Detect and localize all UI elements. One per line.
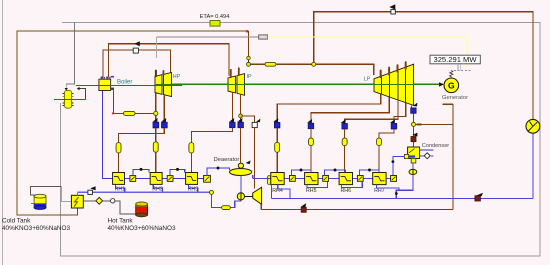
valve pill RH3 feed bbox=[189, 143, 194, 153]
svg-text:325.291 MW: 325.291 MW bbox=[433, 55, 477, 64]
svg-text:Generator: Generator bbox=[442, 95, 468, 101]
arrow on hot reheat bbox=[134, 41, 140, 46]
turbine LP (4 stages) bbox=[374, 64, 414, 105]
boiler right connector ticks bbox=[111, 76, 114, 78]
condensate main line bbox=[272, 133, 534, 199]
LP extraction A -> RH4 bbox=[277, 94, 381, 122]
valve pill RH6 feed bbox=[342, 138, 347, 146]
svg-text:RH3: RH3 bbox=[188, 186, 199, 192]
valve pill RH7 feed bbox=[377, 138, 382, 146]
drain header bbox=[261, 204, 453, 209]
converter box bbox=[259, 35, 268, 39]
hot tank bbox=[136, 202, 148, 217]
svg-text:G: G bbox=[448, 80, 455, 90]
arrow at IP valve 1 bbox=[229, 118, 234, 122]
wire: into RH5 top bbox=[310, 146, 312, 173]
pump sq1 bbox=[130, 176, 136, 182]
sensor gray line to HP inlet bbox=[155, 37, 157, 58]
pump shaft bbox=[245, 195, 253, 197]
deaerator D1 bbox=[230, 169, 252, 176]
RH6 extraction valve (blue) bbox=[342, 124, 348, 130]
wire: IP->LP crossover bbox=[249, 64, 374, 75]
riser sq1->RH2 bbox=[133, 169, 149, 175]
wire: into RH7 top bbox=[378, 146, 380, 173]
RH5 extraction valve (blue) bbox=[308, 123, 314, 129]
drains row2 bbox=[278, 185, 290, 199]
heater top connection to feed line bbox=[77, 192, 79, 195]
LP exhaust to condenser bbox=[411, 105, 413, 108]
generator G1 bbox=[444, 78, 459, 93]
node on crossover (IP side) bbox=[247, 62, 251, 66]
wire: down to FW pump turbine bbox=[254, 128, 256, 189]
cold tank left port tick bbox=[31, 202, 34, 204]
arrow on HX-boiler sensor bbox=[77, 87, 80, 90]
sensor gray line to converter bbox=[156, 36, 258, 38]
wire to hot tank bbox=[115, 201, 136, 214]
HP stage2 stub bbox=[162, 71, 164, 75]
RH7 extraction valve (blue) bbox=[391, 124, 397, 130]
heater RH4 bbox=[271, 173, 284, 195]
valve pill RH2 feed bbox=[153, 142, 158, 152]
arrow at HP valve 1 bbox=[153, 118, 158, 122]
condenser bbox=[408, 147, 420, 159]
heater RH3 bbox=[186, 173, 199, 193]
main feed return purple line bbox=[78, 191, 212, 193]
svg-text:RH6: RH6 bbox=[340, 188, 351, 194]
heater RH6 bbox=[339, 173, 352, 195]
wire: boiler drain to HP leg bbox=[111, 89, 156, 113]
svg-text:Condenser: Condenser bbox=[422, 143, 450, 149]
valve before RH4 bbox=[268, 176, 271, 179]
wire: sensor from frame to HX top bbox=[66, 23, 74, 89]
svg-text:Boiler: Boiler bbox=[117, 80, 132, 86]
pump sq7 bbox=[391, 176, 397, 182]
wire: IP ext to deaerator bbox=[240, 128, 242, 164]
node on crossover (LP side) bbox=[312, 62, 316, 66]
electric heater E1 bbox=[71, 195, 83, 208]
shaft overlay through turbines bbox=[155, 83, 440, 85]
valve pill RH1 feed bbox=[116, 143, 121, 153]
turbine IP bbox=[228, 74, 245, 96]
boiler downcomer bbox=[103, 91, 113, 179]
pump sq2 bbox=[167, 176, 173, 182]
wire: into RH4 top bbox=[276, 152, 278, 172]
boundary element (dark red) above condenser bbox=[411, 137, 416, 142]
sensor hook HX->boiler bbox=[80, 89, 86, 100]
FW pump P1 bbox=[237, 193, 244, 200]
turbine HP bbox=[155, 72, 172, 96]
RH4 extraction valve (blue) bbox=[274, 122, 280, 128]
svg-text:RH1: RH1 bbox=[115, 186, 126, 192]
wire: HP stage2 drop bbox=[163, 96, 165, 123]
arrow at IP valve 2 bbox=[237, 118, 242, 122]
heater RH2 bbox=[150, 173, 163, 193]
IP stubs bbox=[231, 68, 239, 77]
valve (pill) on boiler drain bbox=[124, 111, 136, 115]
condensate extraction pump bbox=[412, 163, 414, 170]
wire: RH7 pump to condenser bbox=[393, 156, 405, 175]
boiler top connector ticks bbox=[101, 77, 103, 79]
wire: IP extraction drops bbox=[232, 92, 240, 122]
receiver heat exchanger HX bbox=[63, 90, 74, 108]
shaft green line bbox=[155, 83, 440, 85]
white square on return bbox=[88, 190, 93, 194]
HP extraction valve 2 (blue) bbox=[162, 122, 168, 128]
wire: cold reheat HP->boiler bbox=[103, 50, 171, 77]
valve pill on crossover bbox=[265, 62, 276, 66]
wires under MW box bbox=[458, 64, 460, 71]
arrow at RH4 valve bbox=[273, 118, 278, 122]
node on return bbox=[210, 190, 214, 194]
IP extraction valve 2 (blue) bbox=[238, 122, 244, 128]
heater RH7 bbox=[373, 173, 386, 195]
red line boiler->HP bbox=[76, 84, 182, 86]
wire: brown drop from olive junction to crossover tap bbox=[247, 31, 249, 62]
arrow at LP exhaust valve bbox=[413, 103, 418, 107]
arrow at RH7 valve bbox=[390, 119, 395, 123]
arrow on drain header bbox=[301, 203, 307, 207]
wire: condenser bypass to drain header bbox=[416, 104, 453, 209]
circulating pump bbox=[526, 119, 540, 133]
connector tick red on boiler drain bbox=[112, 113, 114, 115]
shaft arrowhead at generator bbox=[439, 82, 444, 86]
connector white square on loop bbox=[391, 10, 395, 14]
arrow at FW turbine valve bbox=[256, 119, 260, 123]
green loss element bbox=[417, 123, 422, 125]
pump sq5 bbox=[323, 176, 329, 182]
svg-text:IP: IP bbox=[247, 74, 252, 80]
yellow signal line to generator bbox=[267, 37, 467, 70]
arrow above condenser inlet bbox=[412, 133, 417, 137]
red overlay through HP bbox=[155, 85, 182, 87]
wire: into RH6 top bbox=[344, 146, 346, 173]
wire: HP ext to RH1 bbox=[119, 128, 165, 143]
arrow at HP valve 2 bbox=[161, 118, 166, 122]
diagram gray frame bbox=[61, 23, 541, 256]
FW pump turbine bbox=[253, 187, 262, 204]
heater RH1 bbox=[113, 173, 126, 193]
valve pill on FW suction bbox=[222, 206, 231, 210]
IP extraction valve 1 (blue) bbox=[230, 122, 236, 128]
tap valve ball above node bbox=[247, 56, 251, 60]
svg-text:40%KNO3+60%NaNO3: 40%KNO3+60%NaNO3 bbox=[2, 225, 70, 232]
drains row1 to main return bbox=[116, 184, 125, 192]
condenser left tab bbox=[404, 154, 408, 158]
svg-text:Cold Tank: Cold Tank bbox=[2, 218, 31, 225]
arrow into HX top bbox=[65, 88, 68, 91]
boiler B1 bbox=[99, 79, 111, 90]
svg-text:RH7: RH7 bbox=[374, 188, 385, 194]
left margin gray line bbox=[2, 0, 4, 265]
wire: red salt line through HX bbox=[54, 98, 86, 100]
heater outlet valve diamond bbox=[83, 200, 110, 202]
pump3 (deaerator feed) bbox=[204, 175, 211, 182]
wire: salt loop heater->receiver (olive) bbox=[17, 31, 248, 215]
pump sq6 bbox=[357, 176, 363, 182]
LP exhaust valve (blue) bbox=[411, 108, 416, 113]
wire: HP ext to RH2 bbox=[155, 128, 157, 142]
LP extraction D -> RH7 bbox=[394, 103, 406, 124]
svg-text:40%KNO3+60%NaNO3: 40%KNO3+60%NaNO3 bbox=[108, 225, 176, 232]
wire: into RH2 top bbox=[155, 152, 157, 172]
deaerator outlet loop bbox=[212, 194, 241, 207]
HP inlet stub bbox=[155, 71, 157, 77]
node (yellow) under HP bbox=[154, 111, 158, 115]
wire: into RH3 top bbox=[190, 153, 192, 172]
boundary element (dark red) on condensate line bbox=[475, 196, 481, 201]
svg-text:ETA= 0.494: ETA= 0.494 bbox=[200, 14, 230, 20]
condenser bottom tab bbox=[411, 158, 416, 163]
wire: hot reheat boiler->IP bbox=[109, 44, 230, 77]
wire: condenser big loop top bbox=[314, 12, 533, 120]
node tick red at olive/brown junction bbox=[246, 30, 248, 32]
node above condenser bbox=[412, 122, 416, 126]
arrow on loop bbox=[389, 4, 395, 9]
generator coil squiggle bbox=[450, 70, 453, 78]
riser sq2->RH3 bbox=[170, 169, 185, 175]
node under IP bbox=[239, 114, 243, 118]
FW turbine valve (white) bbox=[252, 122, 257, 127]
wire: node up to HP stage1 bbox=[155, 93, 157, 112]
LP stubs bbox=[381, 62, 406, 77]
main row2 line bbox=[253, 175, 391, 178]
wire: cold tank to heater (sensor) bbox=[30, 187, 71, 202]
cooling water line bbox=[420, 149, 434, 151]
main row1 line bbox=[113, 178, 204, 180]
svg-text:RH5: RH5 bbox=[306, 188, 317, 194]
valve pill RH4 feed bbox=[275, 142, 280, 152]
HP extraction valve 1 (blue) bbox=[153, 122, 159, 128]
LP extraction B -> RH5 bbox=[311, 97, 389, 123]
cooling diamond bbox=[420, 155, 434, 157]
wire: node down to extraction valve bbox=[155, 116, 157, 123]
LP stage dividers bbox=[382, 67, 406, 102]
heater RH5 bbox=[305, 173, 318, 195]
svg-text:Deaerator: Deaerator bbox=[214, 157, 240, 163]
valve pill RH5 feed bbox=[309, 138, 314, 146]
arrow at RH6 valve bbox=[341, 119, 346, 123]
pump sq4 bbox=[290, 176, 296, 182]
cold tank bbox=[34, 194, 46, 209]
arrow at deaerator dome bbox=[246, 160, 251, 164]
svg-text:Hot Tank: Hot Tank bbox=[108, 218, 134, 225]
wire: into RH1 top bbox=[118, 153, 120, 172]
sensor circle bbox=[111, 199, 115, 203]
wire: IP ext to RH3 bbox=[191, 128, 232, 143]
arrow at RH5 valve bbox=[307, 119, 312, 123]
connector white square on cold reheat bbox=[133, 48, 138, 53]
risers row2 bbox=[291, 170, 310, 176]
svg-text:HP: HP bbox=[173, 74, 181, 80]
LP extraction C -> RH6 bbox=[345, 100, 398, 124]
arrow on condensate line bbox=[477, 193, 483, 196]
MW display box bbox=[430, 55, 480, 64]
svg-text:LP: LP bbox=[364, 77, 371, 83]
svg-text:RH2: RH2 bbox=[152, 186, 163, 192]
boundary element (dark red) on header bbox=[301, 207, 306, 212]
riser pump3->deaerator bbox=[207, 168, 230, 175]
